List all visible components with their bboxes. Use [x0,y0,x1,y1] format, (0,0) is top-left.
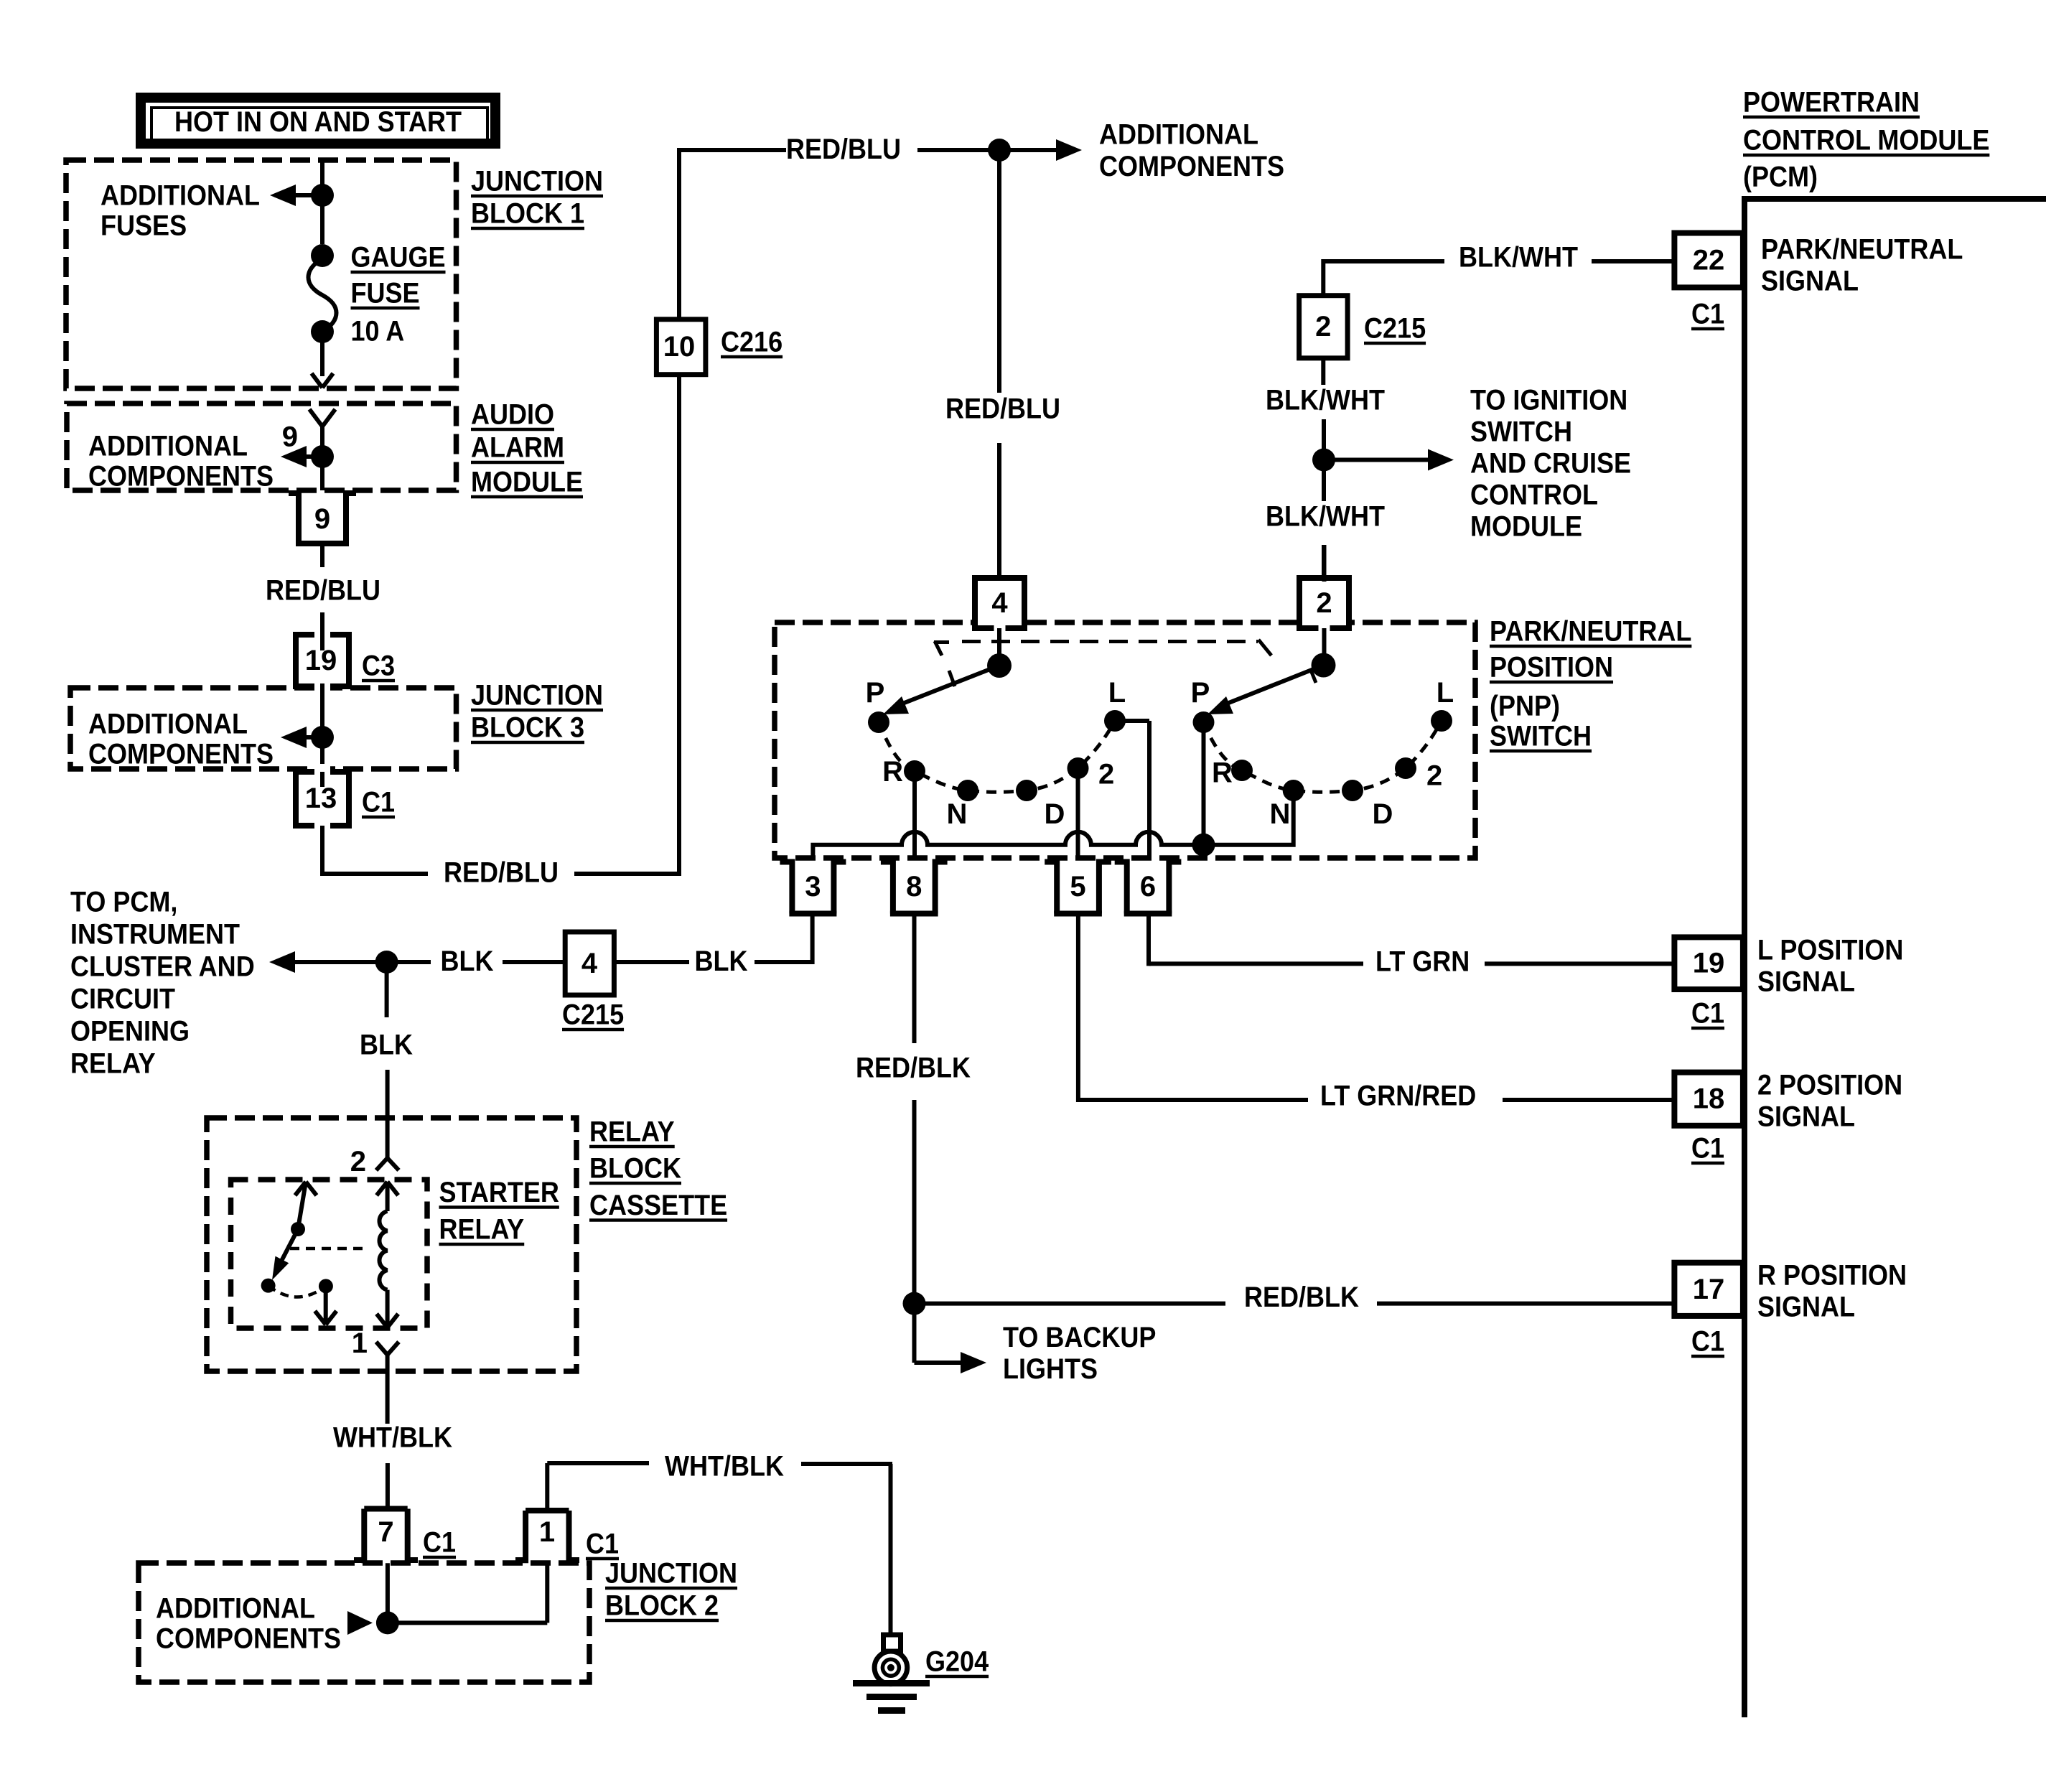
svg-text:1: 1 [352,1327,368,1359]
svg-text:HOT IN ON AND START: HOT IN ON AND START [174,106,462,138]
svg-text:BLK: BLK [695,946,748,977]
svg-text:BLOCK 2: BLOCK 2 [605,1590,719,1622]
svg-text:R: R [1212,757,1233,789]
svg-text:BLK: BLK [360,1030,413,1061]
svg-text:LT GRN/RED: LT GRN/RED [1320,1081,1476,1112]
svg-text:(PNP): (PNP) [1490,691,1560,722]
svg-text:LIGHTS: LIGHTS [1003,1353,1098,1385]
svg-text:CONTROL MODULE: CONTROL MODULE [1743,125,1989,157]
svg-text:MODULE: MODULE [471,467,583,498]
svg-text:N: N [947,798,968,830]
svg-text:INSTRUMENT: INSTRUMENT [70,919,240,951]
svg-text:SWITCH: SWITCH [1490,721,1592,752]
svg-text:TO PCM,: TO PCM, [70,887,177,918]
svg-text:BLK/WHT: BLK/WHT [1266,385,1385,416]
svg-text:AUDIO: AUDIO [471,399,554,431]
svg-text:RED/BLU: RED/BLU [266,575,380,607]
svg-text:R: R [882,756,903,788]
svg-text:C1: C1 [1691,1133,1724,1165]
svg-text:PARK/NEUTRAL: PARK/NEUTRAL [1490,616,1691,648]
svg-text:C1: C1 [1691,998,1724,1030]
svg-text:ALARM: ALARM [471,432,564,464]
svg-text:C1: C1 [362,787,395,818]
svg-text:C1: C1 [1691,1326,1724,1358]
svg-text:RED/BLK: RED/BLK [1244,1282,1359,1313]
svg-text:C1: C1 [586,1529,619,1560]
svg-text:COMPONENTS: COMPONENTS [1099,151,1284,182]
svg-text:G204: G204 [925,1646,989,1678]
svg-text:19: 19 [305,645,337,676]
svg-text:L POSITION: L POSITION [1757,935,1903,966]
svg-text:ADDITIONAL: ADDITIONAL [156,1593,315,1625]
svg-text:BLOCK 1: BLOCK 1 [471,198,584,230]
svg-text:SIGNAL: SIGNAL [1761,266,1859,297]
svg-text:N: N [1270,798,1291,830]
svg-text:SIGNAL: SIGNAL [1757,1292,1855,1323]
svg-text:L: L [1437,677,1454,709]
svg-text:SWITCH: SWITCH [1470,416,1572,448]
svg-text:JUNCTION: JUNCTION [471,166,603,197]
svg-text:P: P [1191,677,1210,709]
svg-text:4: 4 [581,948,598,979]
svg-text:C216: C216 [721,327,783,358]
svg-text:L: L [1108,677,1126,709]
svg-text:OPENING: OPENING [70,1016,190,1047]
svg-text:ADDITIONAL: ADDITIONAL [88,431,248,462]
svg-text:SIGNAL: SIGNAL [1757,966,1855,998]
svg-text:(PCM): (PCM) [1743,162,1818,193]
svg-text:RELAY: RELAY [70,1048,156,1080]
svg-text:TO IGNITION: TO IGNITION [1470,385,1627,416]
svg-text:CLUSTER AND: CLUSTER AND [70,951,255,983]
svg-text:ADDITIONAL: ADDITIONAL [101,180,260,212]
svg-text:9: 9 [314,503,330,535]
svg-text:RED/BLU: RED/BLU [444,857,559,889]
svg-text:22: 22 [1693,244,1725,276]
svg-text:TO BACKUP: TO BACKUP [1003,1322,1156,1353]
svg-text:8: 8 [906,871,922,902]
svg-text:ADDITIONAL: ADDITIONAL [88,709,248,740]
svg-text:10 A: 10 A [351,316,405,347]
svg-text:JUNCTION: JUNCTION [471,680,603,711]
svg-text:1: 1 [539,1516,555,1548]
svg-text:2 POSITION: 2 POSITION [1757,1070,1902,1101]
svg-text:RED/BLU: RED/BLU [786,134,901,165]
svg-text:C3: C3 [362,650,395,682]
svg-text:C215: C215 [1364,313,1426,345]
svg-text:2: 2 [1315,311,1331,342]
svg-text:2: 2 [1426,760,1442,792]
svg-text:2: 2 [1316,587,1332,619]
svg-text:ADDITIONAL: ADDITIONAL [1099,119,1258,151]
svg-text:COMPONENTS: COMPONENTS [88,461,274,493]
svg-text:FUSES: FUSES [101,210,187,242]
svg-text:CASSETTE: CASSETTE [589,1190,727,1221]
svg-text:13: 13 [305,783,337,814]
svg-text:17: 17 [1693,1274,1725,1305]
svg-text:R POSITION: R POSITION [1757,1260,1907,1292]
svg-text:D: D [1045,798,1065,830]
svg-text:18: 18 [1693,1083,1725,1115]
svg-text:WHT/BLK: WHT/BLK [665,1451,784,1483]
svg-text:BLK/WHT: BLK/WHT [1459,242,1578,274]
svg-text:P: P [866,677,885,709]
svg-text:4: 4 [991,587,1008,619]
svg-text:6: 6 [1140,871,1156,902]
svg-text:RED/BLU: RED/BLU [945,393,1060,425]
svg-text:STARTER: STARTER [439,1177,559,1208]
svg-text:3: 3 [805,871,821,902]
svg-text:MODULE: MODULE [1470,511,1582,543]
svg-text:RELAY: RELAY [439,1214,525,1246]
svg-text:GAUGE: GAUGE [351,242,446,274]
svg-text:C215: C215 [562,999,624,1031]
svg-text:LT GRN: LT GRN [1375,946,1470,978]
svg-text:BLOCK 3: BLOCK 3 [471,712,584,744]
svg-text:2: 2 [1098,759,1114,790]
svg-text:FUSE: FUSE [351,278,420,309]
svg-text:POWERTRAIN: POWERTRAIN [1743,87,1920,118]
svg-text:SIGNAL: SIGNAL [1757,1101,1855,1133]
svg-text:5: 5 [1070,871,1085,902]
svg-text:CIRCUIT: CIRCUIT [70,984,175,1015]
svg-text:COMPONENTS: COMPONENTS [88,739,274,770]
svg-text:10: 10 [663,331,696,363]
svg-text:D: D [1373,798,1393,830]
svg-text:BLOCK: BLOCK [589,1153,681,1185]
svg-text:C1: C1 [423,1527,456,1559]
svg-text:19: 19 [1693,948,1725,979]
svg-text:COMPONENTS: COMPONENTS [156,1623,341,1655]
svg-text:7: 7 [378,1516,393,1548]
svg-text:9: 9 [282,421,298,453]
svg-text:AND CRUISE: AND CRUISE [1470,448,1631,480]
svg-text:RELAY: RELAY [589,1116,675,1148]
svg-text:BLK/WHT: BLK/WHT [1266,501,1385,533]
svg-text:RED/BLK: RED/BLK [856,1053,971,1084]
svg-text:2: 2 [350,1146,366,1177]
svg-text:POSITION: POSITION [1490,652,1613,683]
svg-text:WHT/BLK: WHT/BLK [333,1422,452,1454]
svg-text:JUNCTION: JUNCTION [605,1558,737,1590]
svg-text:C1: C1 [1691,299,1724,330]
svg-text:BLK: BLK [441,946,494,977]
svg-text:PARK/NEUTRAL: PARK/NEUTRAL [1761,234,1963,266]
svg-text:CONTROL: CONTROL [1470,480,1598,511]
